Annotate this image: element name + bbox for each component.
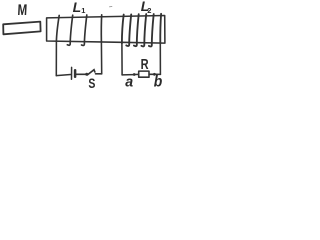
svg-text:1: 1 <box>81 6 85 15</box>
coil L2 turn 6 <box>159 14 162 44</box>
battery short plate <box>74 70 77 76</box>
wire: resistor to node b <box>149 73 153 75</box>
coil L2 turn 4 <box>141 14 146 46</box>
svg-text:R: R <box>141 56 150 73</box>
wire: node a to resistor <box>135 73 138 75</box>
coil L2 turn 5 <box>149 14 154 46</box>
coil L1 turn 2 <box>67 15 72 45</box>
wire: switch to right corner <box>96 73 102 75</box>
wire: node b to right corner <box>156 73 161 75</box>
wire: secondary loop bottom left segment <box>122 74 133 76</box>
node a <box>133 73 136 76</box>
coil L1 turn 4 <box>100 15 102 42</box>
coil L1 turn 3 <box>82 15 87 45</box>
iron core bar <box>47 16 165 44</box>
battery long plate <box>71 67 73 79</box>
stray mark <box>110 5 112 7</box>
wire: L1 right lead down <box>100 42 102 74</box>
svg-text:2: 2 <box>147 6 151 15</box>
wire: L2 right lead down <box>159 43 161 74</box>
coil L2 turn 1 <box>122 15 124 44</box>
wire: primary loop bottom left segment <box>56 75 70 76</box>
coil L1 turn 1 <box>56 15 59 41</box>
switch S blade <box>87 70 95 75</box>
switch S left contact <box>85 73 88 76</box>
svg-text:M: M <box>17 1 28 18</box>
wire: L1 left lead down <box>55 42 57 76</box>
wire: battery to switch <box>76 73 85 75</box>
wire: L2 left lead down <box>121 43 123 75</box>
coil L2 turn 2 <box>126 14 131 46</box>
svg-text:a: a <box>125 74 133 90</box>
resistor R box <box>139 71 149 77</box>
svg-text:L: L <box>73 0 82 15</box>
coil L2 turn 3 <box>134 14 139 46</box>
bar magnet M <box>3 22 40 35</box>
svg-text:S: S <box>88 76 95 92</box>
svg-text:b: b <box>154 74 163 91</box>
node b <box>153 73 156 76</box>
